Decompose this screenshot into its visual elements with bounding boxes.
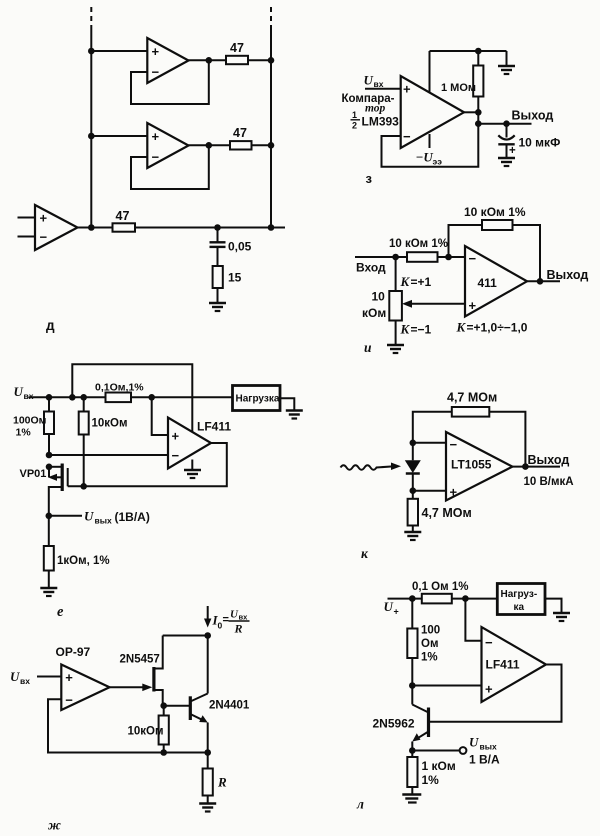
svg-text:вх: вх: [24, 391, 34, 401]
node output: [537, 278, 544, 285]
node A1 bus right: [268, 57, 275, 64]
svg-text:1кОм, 1%: 1кОм, 1%: [57, 555, 110, 567]
node bus left bottom: [88, 224, 95, 231]
wire A2 output: [189, 144, 272, 146]
node top loop left: [69, 394, 76, 401]
wire load to ground: [280, 398, 294, 410]
op-amp 411: [465, 246, 527, 317]
label Uвх (е): [14, 384, 34, 401]
svg-text:Выход: Выход: [547, 268, 589, 282]
svg-text:0,1Ом,1%: 0,1Ом,1%: [95, 382, 144, 394]
node emitter (л): [409, 747, 416, 754]
ground (е op-amp): [184, 470, 201, 478]
svg-text:Выход: Выход: [512, 109, 554, 123]
node cap junction: [214, 224, 221, 231]
label Компаратор: [342, 93, 395, 115]
node source/base junction: [160, 702, 167, 709]
op-amp A1: [147, 38, 188, 83]
svg-text:−: −: [152, 150, 160, 165]
wire load to ground (л): [545, 599, 562, 613]
transistor 2N4401: [190, 636, 250, 753]
wire pot top: [395, 257, 397, 291]
wire top rail (ж): [163, 635, 208, 637]
svg-text:−: −: [403, 129, 411, 144]
svg-text:U: U: [14, 384, 24, 399]
label Uвх: [364, 73, 384, 90]
label 1/2 LM393: [351, 110, 400, 131]
op-amp LF411 (е): [168, 418, 231, 469]
node plus: [410, 487, 417, 494]
svg-text:ж: ж: [48, 818, 61, 833]
wire A2 feedback: [131, 145, 209, 189]
svg-text:+: +: [403, 82, 411, 97]
label Выход 10 В/мкА: [524, 453, 574, 488]
svg-text:+: +: [152, 129, 160, 144]
svg-text:(1В/А): (1В/А): [115, 510, 150, 524]
svg-text:2N5962: 2N5962: [373, 717, 415, 731]
svg-text:100Ом: 100Ом: [13, 415, 47, 427]
terminal circle: [460, 747, 467, 754]
node A1 output: [206, 57, 213, 64]
svg-text:−U: −U: [416, 150, 434, 165]
potentiometer 10 кОм: [362, 290, 402, 321]
svg-text:1: 1: [352, 110, 357, 120]
wire output down: [477, 112, 479, 123]
svg-text:0,05: 0,05: [228, 240, 252, 254]
wire diode bottom: [412, 474, 414, 499]
label Uвых (1В/А): [84, 509, 150, 526]
svg-text:вых: вых: [95, 516, 112, 526]
wire A1 output: [189, 59, 272, 61]
svg-text:LM393: LM393: [362, 115, 400, 129]
current arrow I0: [204, 606, 211, 628]
op-amp OP-97: [61, 665, 109, 711]
resistor 1 МОм: [441, 51, 483, 112]
ground (ж): [199, 804, 216, 812]
node A2 output: [206, 142, 213, 149]
node top rail: [475, 48, 482, 55]
wire -Uээ stub: [429, 134, 431, 148]
light arrow: [341, 463, 402, 471]
wire top rail (л): [388, 598, 498, 600]
wire to ground right: [506, 51, 508, 66]
node sense left: [409, 595, 416, 602]
svg-text:47: 47: [116, 209, 130, 223]
svg-text:10 В/мкА: 10 В/мкА: [524, 476, 574, 488]
resistor 47 (A1): [226, 41, 248, 64]
svg-text:е: е: [57, 604, 64, 620]
node output top: [475, 109, 482, 116]
wire Выход: [478, 123, 531, 125]
svg-text:к: к: [361, 546, 369, 561]
wire Uвых: [49, 515, 82, 517]
svg-text:0,1 Ом 1%: 0,1 Ом 1%: [412, 581, 468, 593]
wire A3 inputs: [18, 218, 36, 237]
svg-text:10кОм: 10кОм: [128, 726, 164, 738]
svg-text:100: 100: [421, 625, 440, 637]
svg-text:+: +: [172, 429, 180, 444]
wire feedback top rail: [413, 412, 526, 467]
wire plus input (л): [412, 685, 481, 687]
resistor 10 кОм 1% (input): [389, 238, 448, 262]
node output (к): [522, 463, 529, 470]
wire V+ stub: [429, 51, 431, 93]
label -Uээ: [416, 150, 443, 167]
svg-text:−: −: [485, 635, 493, 650]
svg-text:1 МОм: 1 МОм: [441, 82, 476, 94]
svg-text:U: U: [10, 669, 20, 684]
svg-text:VP01: VP01: [20, 468, 47, 480]
svg-text:2N4401: 2N4401: [209, 700, 250, 712]
resistor 0,1Ом 1%: [95, 382, 144, 403]
svg-text:д: д: [46, 318, 55, 333]
wire main rail: [29, 396, 233, 398]
svg-text:Ом: Ом: [421, 638, 438, 650]
svg-text:+: +: [152, 44, 160, 59]
load box Нагрузка (л): [497, 584, 545, 615]
transistor 2N5457: [120, 636, 163, 706]
load box Нагрузка (е): [233, 386, 281, 411]
wire A1 feedback: [131, 60, 209, 104]
wire minus feedback (ж): [48, 699, 208, 752]
svg-text:Нагруз-: Нагруз-: [501, 589, 538, 600]
svg-text:+: +: [469, 298, 477, 313]
wire A3 output row: [78, 227, 286, 229]
resistor 1кОм 1% (е): [44, 516, 110, 588]
svg-text:U: U: [384, 599, 394, 614]
svg-text:+: +: [40, 211, 48, 226]
resistor 4,7 МОм (bottom): [408, 499, 472, 532]
wire output: [527, 280, 560, 282]
svg-text:вх: вх: [20, 676, 30, 686]
resistor 4,7 МОм (feedback): [447, 391, 497, 417]
svg-text:2: 2: [352, 121, 357, 131]
svg-text:1 В/А: 1 В/А: [469, 753, 500, 767]
wire output to gate: [68, 443, 227, 486]
node cap top: [503, 120, 510, 127]
label Uвх (ж): [10, 669, 30, 686]
svg-text:вх: вх: [239, 613, 249, 622]
node 10k top: [80, 394, 87, 401]
resistor 1 кОм 1% (л): [407, 751, 456, 794]
svg-text:LF411: LF411: [197, 420, 231, 434]
transistor 2N5962: [373, 686, 429, 751]
svg-text:+: +: [485, 682, 493, 697]
resistor R: [203, 753, 227, 804]
wire output to base (л): [429, 665, 562, 722]
svg-text:K: K: [456, 320, 467, 335]
resistor 10кОм (ж): [128, 706, 169, 753]
resistor 0,1 Ом 1% (л): [412, 581, 468, 603]
node 10k bottom: [160, 749, 167, 756]
wire to output terminal: [412, 750, 459, 752]
node A1 input: [88, 48, 95, 55]
svg-text:Выход: Выход: [528, 453, 570, 467]
ground (и): [387, 345, 404, 353]
label K=+1,0 / -1,0: [456, 320, 528, 335]
ground (е load): [286, 411, 303, 419]
svg-text:тор: тор: [365, 103, 386, 115]
wire wiper to +input: [402, 300, 465, 308]
node A2 bus right: [268, 142, 275, 149]
node feedback tap: [445, 254, 452, 261]
resistor 10 кОм 1% (feedback): [464, 205, 526, 230]
resistor 15: [213, 266, 242, 288]
wire A2 +input: [91, 135, 147, 137]
node sense R top: [46, 394, 53, 401]
node plus (л): [409, 682, 416, 689]
op-amp A3: [35, 205, 78, 250]
svg-text:л: л: [356, 797, 364, 812]
wire input Uвх: [365, 88, 401, 90]
right bus (dashed top): [270, 7, 272, 228]
capacitor 10 мкФ: [498, 124, 560, 158]
svg-text:=: =: [223, 614, 229, 626]
svg-text:10 кОм 1%: 10 кОм 1%: [389, 238, 448, 250]
svg-text:вх: вх: [374, 79, 384, 89]
svg-text:−: −: [469, 251, 477, 266]
node output low: [475, 120, 482, 127]
svg-text:4,7 МОм: 4,7 МОм: [447, 391, 497, 405]
photodiode D1: [405, 460, 421, 473]
wire resistor to ground: [217, 288, 219, 303]
wire feedback top: [449, 225, 483, 257]
svg-text:47: 47: [230, 41, 244, 55]
svg-text:2N5457: 2N5457: [120, 654, 160, 666]
resistor 100 Ом 1%: [407, 599, 440, 686]
ground (л bottom): [402, 795, 421, 803]
wire cap to resistor: [217, 247, 219, 266]
ground (е bottom): [40, 588, 57, 596]
ground (з top): [498, 66, 515, 74]
wire plus input: [413, 490, 446, 492]
op-amp U1 LM393: [401, 76, 464, 148]
svg-text:OP-97: OP-97: [56, 645, 91, 659]
wire plus input: [152, 397, 168, 435]
wire base (ж): [164, 705, 189, 707]
wire feedback to output: [513, 225, 541, 281]
ground (з cap): [498, 158, 515, 166]
svg-text:1%: 1%: [422, 773, 440, 787]
svg-text:Вход: Вход: [356, 261, 386, 275]
svg-text:1%: 1%: [16, 427, 32, 439]
resistor 47 (A3): [113, 209, 136, 232]
wire A1 +input: [91, 50, 147, 52]
ground (л load): [553, 613, 570, 621]
svg-text:−: −: [152, 65, 160, 80]
svg-text:=+1,0÷−1,0: =+1,0÷−1,0: [467, 321, 528, 335]
node bus right bottom: [268, 224, 275, 231]
resistor 100Ом 1%: [13, 397, 54, 455]
svg-text:U: U: [469, 735, 479, 750]
label U+: [384, 599, 399, 617]
svg-text:LF411: LF411: [486, 658, 520, 672]
op-amp LT1055: [446, 432, 512, 501]
svg-text:+: +: [65, 670, 73, 685]
svg-text:−: −: [450, 437, 458, 452]
resistor 47 (A2): [230, 126, 252, 150]
resistor 10кОм (е): [79, 397, 128, 486]
svg-text:ээ: ээ: [433, 157, 443, 167]
svg-text:и: и: [364, 340, 372, 355]
svg-text:10: 10: [372, 290, 386, 304]
svg-text:R: R: [217, 775, 227, 790]
svg-text:4,7 МОм: 4,7 МОм: [422, 506, 472, 520]
ground (к): [404, 532, 421, 540]
svg-text:10 кОм 1%: 10 кОм 1%: [464, 205, 526, 219]
wire input: [355, 256, 465, 258]
node sense right: [462, 595, 469, 602]
svg-text:Нагрузка: Нагрузка: [236, 394, 280, 405]
node Uвых: [46, 513, 53, 520]
svg-text:+: +: [509, 145, 516, 157]
op-amp A2: [147, 123, 188, 168]
svg-text:=+1: =+1: [411, 275, 432, 289]
svg-text:−: −: [65, 693, 73, 708]
svg-text:10кОм: 10кОм: [92, 418, 128, 430]
wire top loop to V+: [72, 364, 192, 432]
node emitter bottom: [204, 749, 211, 756]
wire diode top: [412, 443, 414, 461]
wire input (ж): [37, 676, 61, 678]
svg-text:LT1055: LT1055: [451, 458, 492, 472]
svg-text:U: U: [84, 509, 94, 524]
svg-text:10 мкФ: 10 мкФ: [519, 136, 561, 150]
svg-text:ка: ка: [514, 602, 525, 613]
node gate/10k: [80, 483, 87, 490]
svg-text:+: +: [450, 485, 458, 500]
svg-text:вых: вых: [480, 742, 497, 752]
wire feedback: [382, 124, 479, 167]
node input: [392, 254, 399, 261]
wire output (к): [512, 466, 560, 468]
svg-text:=−1: =−1: [411, 323, 432, 337]
svg-text:−: −: [40, 230, 48, 245]
node A2 input: [88, 133, 95, 140]
wire op-amp gnd stub: [191, 460, 193, 470]
svg-text:15: 15: [228, 271, 242, 285]
wire minus input (л): [465, 599, 481, 641]
op-amp LF411 (л): [482, 627, 547, 702]
node minus sense: [46, 452, 53, 459]
label K=-1: [400, 322, 432, 337]
ground (д): [209, 303, 226, 311]
wire minus input: [49, 454, 168, 456]
wire pot to ground: [395, 321, 397, 345]
svg-text:47: 47: [233, 126, 247, 140]
node drain: [46, 464, 53, 471]
node minus: [410, 440, 417, 447]
wire minus input: [413, 442, 446, 444]
svg-text:K: K: [400, 274, 411, 289]
svg-text:1%: 1%: [421, 652, 438, 664]
label I0 = Uвх/R: [212, 609, 250, 636]
label K=+1: [400, 274, 432, 289]
transistor VP01: [20, 464, 68, 516]
left bus (dashed top): [90, 7, 92, 228]
node plus tap: [148, 394, 155, 401]
svg-text:U: U: [364, 73, 374, 88]
svg-text:K: K: [400, 322, 411, 337]
svg-text:R: R: [234, 622, 243, 636]
capacitor 0,05: [210, 228, 252, 254]
svg-text:1 кОм: 1 кОм: [422, 759, 456, 773]
node top (ж): [204, 632, 211, 639]
svg-text:кОм: кОм: [362, 306, 386, 320]
svg-text:+: +: [394, 607, 399, 617]
svg-text:411: 411: [478, 276, 498, 290]
wire output: [464, 111, 478, 113]
label Uвых 1 В/А: [469, 735, 500, 767]
svg-text:з: з: [366, 171, 373, 186]
wire output to gate + arrow: [110, 684, 153, 692]
wire top rail: [430, 50, 507, 52]
svg-text:−: −: [172, 448, 180, 463]
